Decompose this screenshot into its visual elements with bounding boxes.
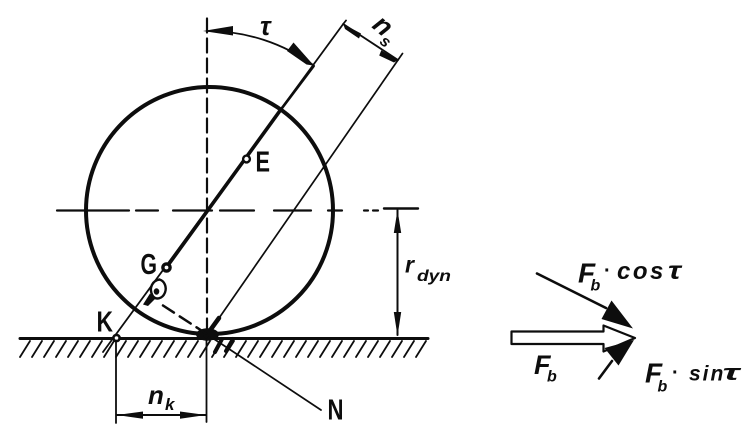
svg-text:k: k	[165, 395, 176, 414]
steering axis (thin full length K to apex)	[103, 21, 346, 353]
svg-text:b: b	[658, 379, 668, 396]
r_dyn top arrowhead	[394, 210, 401, 233]
svg-text:·: ·	[672, 362, 679, 384]
r_dyn dimension line	[397, 210, 399, 335]
ground hatching	[20, 341, 426, 357]
n_k left extension line (below K)	[115, 341, 117, 424]
F_b sin tau arrowhead	[605, 340, 635, 366]
svg-text:τ: τ	[260, 11, 272, 41]
n_k right arrowhead	[180, 412, 206, 419]
n_k right extension line (below contact point)	[206, 341, 208, 423]
svg-text:sin: sin	[689, 363, 725, 386]
contact point blob	[196, 328, 219, 340]
thick hatch marks beside contact point	[215, 339, 233, 352]
F_b cos tau arrowhead	[602, 301, 634, 329]
ns arrowhead toward contact-parallel line	[379, 50, 398, 62]
line through contact point parallel to axis	[208, 54, 403, 335]
n_k left arrowhead	[117, 412, 143, 419]
svg-text:τ: τ	[668, 257, 683, 285]
tau arc arrowhead at axis	[287, 43, 314, 66]
svg-text:dyn: dyn	[417, 268, 451, 285]
caster angle arc tau	[208, 31, 314, 66]
vertical centre line (dashed)	[206, 19, 208, 334]
ns dimension line (perpendicular to axis)	[343, 24, 398, 60]
angle loop tail arrowhead	[143, 294, 156, 307]
svg-text:·: ·	[604, 260, 611, 282]
svg-text:N: N	[328, 395, 344, 427]
n_k dimension line	[117, 414, 206, 416]
ground line	[20, 337, 428, 340]
svg-text:cos: cos	[617, 258, 666, 285]
angle loop mark near G	[151, 280, 166, 299]
point G marker	[163, 264, 170, 271]
F_b block arrow (outline)	[512, 326, 636, 352]
svg-text:b: b	[547, 369, 557, 386]
r_dyn bottom arrowhead	[394, 312, 401, 336]
ns arrowhead toward axis	[343, 24, 361, 39]
svg-text:G: G	[141, 249, 158, 281]
point E marker	[243, 156, 250, 163]
steering axis thick segment G to upper circle crossing	[166, 111, 280, 268]
svg-text:b: b	[591, 278, 601, 295]
dashed line from axis to contact point	[163, 306, 206, 334]
svg-text:E: E	[256, 147, 271, 179]
svg-text:n: n	[148, 380, 164, 410]
svg-text:r: r	[405, 252, 415, 278]
wheel circle	[86, 87, 333, 334]
point K marker (open circle)	[113, 335, 119, 341]
horizontal centre line (dash-dot)	[57, 209, 378, 211]
svg-text:τ: τ	[723, 360, 742, 385]
tau arc arrowhead at vertical line	[203, 26, 233, 36]
line from contact point to label N	[211, 337, 321, 410]
F_b sin tau tail line	[599, 361, 612, 379]
F_b cos tau component line	[537, 274, 606, 309]
svg-text:K: K	[97, 307, 114, 339]
label n_s (rotated)	[364, 9, 406, 52]
r_dyn top reference tick	[384, 207, 418, 209]
